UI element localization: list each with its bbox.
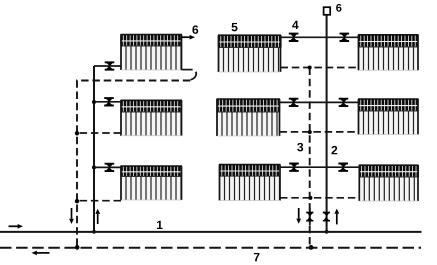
expansion tank symbol [324, 7, 331, 15]
label 1 [157, 221, 163, 229]
flow arrow return main [37, 252, 50, 254]
flow arrow to label 6 left [182, 36, 190, 38]
flow arrow supply main [9, 225, 18, 227]
pipe floor2 middle return (dashed) [280, 131, 359, 133]
node riser 3 to return main [309, 245, 314, 250]
pipe floor1 left return (dashed) [77, 200, 121, 202]
radiator middle floor3 [218, 35, 281, 72]
pipe floor3 middle supply [281, 36, 359, 38]
pipe floor3 middle return (dashed) [281, 67, 359, 69]
label 3 [297, 143, 303, 152]
pipe floor1 middle return (dashed) [280, 197, 359, 199]
flow arrow down riser 3 [298, 208, 300, 219]
valve floor2 right [339, 99, 349, 106]
valve floor2 middle [289, 99, 299, 106]
valve floor3 right [340, 34, 350, 41]
valve 4 [289, 34, 299, 41]
pipe radiator outlet elbow left floor3 [182, 69, 193, 71]
pipe floor3 left supply [94, 65, 121, 67]
radiator right floor2 [358, 99, 419, 135]
valve floor3 left [105, 62, 115, 69]
node return tee floor1 left [75, 199, 79, 203]
valve floor1 middle [289, 164, 299, 171]
pipe floor2 middle supply [280, 101, 359, 103]
radiator middle floor2 [217, 99, 281, 136]
valve on return riser 3 [309, 208, 311, 226]
label 5 [232, 23, 238, 31]
flow arrow down left riser [71, 208, 73, 219]
radiator left floor2 [121, 100, 183, 135]
radiator right floor1 [359, 165, 419, 201]
supply main (solid bottom line) [0, 231, 422, 233]
valve on supply riser 2 [323, 213, 330, 221]
node left return riser to main [75, 245, 80, 250]
flow arrow up left riser [97, 214, 99, 224]
label 2 [331, 146, 337, 154]
radiator left floor1 [121, 166, 183, 200]
node floor1 return riser tee [308, 196, 312, 200]
radiator middle floor1 [219, 165, 281, 201]
radiator right floor3 [358, 35, 419, 71]
valve floor1 left [105, 164, 115, 171]
node floor3 return riser tee [308, 66, 312, 70]
pipe floor1 middle supply [280, 166, 359, 168]
pipe floor1 left supply [94, 166, 121, 168]
node supply tee floor2 left [92, 100, 96, 104]
label 6 right [336, 4, 341, 12]
label 7 [254, 253, 260, 261]
return riser 3 (middle dashed) [309, 68, 311, 248]
valve floor2 left [104, 98, 114, 105]
return riser left (dashed) [77, 81, 190, 248]
flow arrow up riser 2 [336, 214, 338, 225]
node riser 2 to supply main [325, 230, 329, 234]
radiator left floor3 [121, 35, 183, 71]
pipe floor2 left return (dashed) [77, 132, 121, 134]
node supply tee floor1 left [92, 165, 96, 169]
node floor2 return riser tee [308, 130, 312, 134]
node return tee floor2 left [75, 131, 79, 135]
return main (dashed bottom line) [0, 247, 421, 249]
pipe floor2 left supply [94, 101, 121, 103]
label 4 [292, 21, 298, 29]
supply riser 2 (middle solid) [326, 15, 328, 232]
node left supply riser to main [92, 230, 96, 234]
valve floor1 right [338, 164, 348, 171]
label 6 left [192, 25, 198, 33]
supply riser left [93, 66, 95, 232]
